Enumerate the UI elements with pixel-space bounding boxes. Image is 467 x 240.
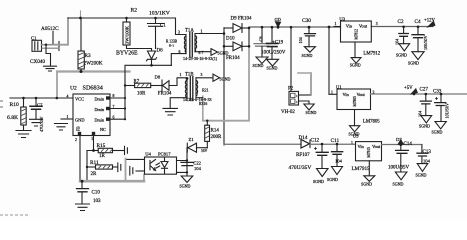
svg-text:1: 1 xyxy=(335,22,337,26)
svg-text:SGND: SGND xyxy=(302,53,313,58)
svg-text:U5: U5 xyxy=(353,134,359,139)
svg-text:14D B-6-16-9-33: 14D B-6-16-9-33 xyxy=(183,97,212,102)
svg-text:SGND: SGND xyxy=(313,179,324,184)
svg-text:D9 FR104: D9 FR104 xyxy=(231,17,252,22)
svg-text:1: 1 xyxy=(296,94,298,98)
svg-text:Vout: Vout xyxy=(372,144,381,149)
svg-text:6: 6 xyxy=(113,116,115,120)
svg-text:2: 2 xyxy=(75,138,77,142)
svg-text:C7: C7 xyxy=(37,103,43,108)
svg-text:470U/35V: 470U/35V xyxy=(289,165,312,171)
svg-text:R2: R2 xyxy=(131,8,138,14)
svg-text:+5V: +5V xyxy=(404,86,413,91)
svg-text:D14: D14 xyxy=(299,135,308,141)
svg-text:R7: R7 xyxy=(134,80,140,85)
svg-text:1: 1 xyxy=(67,115,69,119)
svg-text:103: 103 xyxy=(93,199,101,204)
svg-text:Drain: Drain xyxy=(95,107,105,112)
svg-text:M7812: M7812 xyxy=(354,29,358,40)
svg-text:1: 1 xyxy=(296,100,298,104)
svg-text:Vout: Vout xyxy=(359,23,368,28)
svg-text:+12V: +12V xyxy=(424,19,436,24)
svg-text:Vout: Vout xyxy=(357,92,366,97)
svg-text:2R: 2R xyxy=(91,172,98,177)
svg-text:Z1: Z1 xyxy=(189,137,195,142)
svg-text:C8: C8 xyxy=(259,36,264,42)
svg-text:BYV26E: BYV26E xyxy=(116,51,138,57)
svg-text:2W200K: 2W200K xyxy=(84,61,103,67)
svg-text:Vin: Vin xyxy=(358,144,365,149)
svg-text:6: 6 xyxy=(179,50,181,54)
svg-text:104: 104 xyxy=(418,110,423,117)
svg-text:3: 3 xyxy=(201,73,203,77)
svg-text:VH-02: VH-02 xyxy=(281,110,295,115)
svg-text:D7: D7 xyxy=(396,137,402,142)
svg-text:R3: R3 xyxy=(85,53,91,59)
svg-text:SGND: SGND xyxy=(432,130,443,135)
svg-text:D10: D10 xyxy=(226,37,235,42)
svg-text:SGND: SGND xyxy=(253,63,264,68)
svg-text:104: 104 xyxy=(298,36,303,43)
svg-text:RF107: RF107 xyxy=(296,153,310,158)
svg-text:Vin: Vin xyxy=(346,23,353,28)
svg-text:3: 3 xyxy=(376,22,378,26)
svg-text:SD6834: SD6834 xyxy=(83,85,103,92)
svg-text:SGND: SGND xyxy=(267,66,278,71)
svg-text:3: 3 xyxy=(373,91,375,95)
svg-text:C12: C12 xyxy=(311,138,320,144)
svg-text:8: 8 xyxy=(113,94,115,98)
svg-text:7: 7 xyxy=(113,105,115,109)
svg-text:R11: R11 xyxy=(90,160,99,166)
svg-text:M7915: M7915 xyxy=(367,147,371,158)
svg-text:C1: C1 xyxy=(31,36,37,41)
svg-text:SGND: SGND xyxy=(396,53,407,58)
svg-text:Drain: Drain xyxy=(95,118,105,123)
svg-text:R14: R14 xyxy=(211,129,220,134)
svg-text:D8: D8 xyxy=(155,75,161,80)
svg-text:C33: C33 xyxy=(433,90,442,95)
svg-text:CX040: CX040 xyxy=(30,59,45,65)
svg-text:C1: C1 xyxy=(160,24,166,29)
svg-text:SGND: SGND xyxy=(180,184,191,189)
svg-text:FB: FB xyxy=(77,126,81,131)
svg-text:200R: 200R xyxy=(211,135,223,140)
svg-text:U3: U3 xyxy=(339,17,345,22)
svg-text:D6: D6 xyxy=(157,49,164,54)
svg-text:10U/50V: 10U/50V xyxy=(445,103,450,119)
svg-text:M7805: M7805 xyxy=(353,96,357,107)
svg-text:SGND: SGND xyxy=(306,110,317,115)
svg-text:T1B: T1B xyxy=(185,73,194,78)
svg-text:3W/100K: 3W/100K xyxy=(124,25,129,44)
svg-text:3: 3 xyxy=(178,31,180,35)
svg-text:100/50V: 100/50V xyxy=(423,35,428,50)
svg-text:A0512C: A0512C xyxy=(41,26,59,32)
svg-text:SGND: SGND xyxy=(419,124,430,129)
svg-text:B-1: B-1 xyxy=(169,44,174,48)
svg-text:1: 1 xyxy=(180,73,182,77)
svg-text:C30: C30 xyxy=(302,18,311,24)
svg-text:+C19: +C19 xyxy=(272,41,284,46)
svg-text:SGND: SGND xyxy=(408,61,419,66)
svg-text:100U/35V: 100U/35V xyxy=(388,166,410,171)
svg-text:14-25-30-16-9-33(1): 14-25-30-16-9-33(1) xyxy=(183,56,218,61)
svg-text:Vin: Vin xyxy=(343,92,350,97)
svg-text:Drain: Drain xyxy=(95,97,105,102)
svg-text:PC817: PC817 xyxy=(158,152,171,157)
svg-text:8 7: 8 7 xyxy=(199,51,204,55)
svg-text:FR104: FR104 xyxy=(226,56,240,61)
svg-text:SGND: SGND xyxy=(327,177,338,182)
svg-text:6.8K: 6.8K xyxy=(7,115,18,121)
svg-text:R21: R21 xyxy=(202,88,209,93)
svg-text:T1A: T1A xyxy=(185,29,194,34)
svg-text:C13: C13 xyxy=(423,150,432,155)
svg-text:NC: NC xyxy=(100,127,106,132)
svg-text:SGND: SGND xyxy=(416,173,427,178)
svg-text:100U/250V: 100U/250V xyxy=(261,49,286,55)
svg-text:SGND: SGND xyxy=(393,182,404,187)
svg-text:104: 104 xyxy=(395,38,400,45)
svg-text:R10: R10 xyxy=(10,102,20,108)
svg-text:VCC: VCC xyxy=(75,97,84,102)
svg-text:C10: C10 xyxy=(92,191,101,196)
svg-text:C22: C22 xyxy=(193,160,201,165)
svg-text:104: 104 xyxy=(423,159,431,164)
svg-text:C4: C4 xyxy=(415,19,421,25)
svg-text:SGND: SGND xyxy=(220,77,231,82)
svg-text:U1: U1 xyxy=(336,84,342,89)
svg-text:GND: GND xyxy=(75,118,85,123)
svg-text:C27: C27 xyxy=(420,88,429,93)
svg-text:10R: 10R xyxy=(137,92,146,97)
svg-text:104: 104 xyxy=(194,166,202,171)
svg-text:SGND: SGND xyxy=(361,182,372,187)
svg-text:103/1KV: 103/1KV xyxy=(149,11,170,17)
svg-text:LM7805: LM7805 xyxy=(363,120,380,125)
svg-text:C14: C14 xyxy=(404,142,413,147)
svg-text:FR104: FR104 xyxy=(158,92,172,97)
svg-text:1: 1 xyxy=(331,91,333,95)
svg-text:SGND: SGND xyxy=(350,63,361,68)
svg-text:U4: U4 xyxy=(145,152,151,157)
svg-text:5: 5 xyxy=(92,137,94,141)
svg-text:47U/35V: 47U/35V xyxy=(39,116,44,132)
svg-text:104: 104 xyxy=(335,159,343,164)
svg-text:4: 4 xyxy=(67,95,69,99)
svg-text:C11: C11 xyxy=(331,138,340,144)
svg-text:SGND: SGND xyxy=(218,51,229,56)
svg-text:P2: P2 xyxy=(288,87,294,92)
svg-text:1: 1 xyxy=(201,30,203,34)
svg-text:1: 1 xyxy=(351,141,353,145)
svg-text:R15: R15 xyxy=(97,143,106,149)
svg-text:GD: GD xyxy=(275,17,281,22)
svg-text:LM7912: LM7912 xyxy=(363,52,380,57)
svg-text:R316: R316 xyxy=(199,102,207,106)
svg-text:C2: C2 xyxy=(398,19,404,25)
svg-text:1R: 1R xyxy=(99,154,106,159)
svg-text:16V: 16V xyxy=(201,149,208,153)
svg-text:LM7915: LM7915 xyxy=(352,166,371,172)
svg-text:U2: U2 xyxy=(70,86,77,92)
